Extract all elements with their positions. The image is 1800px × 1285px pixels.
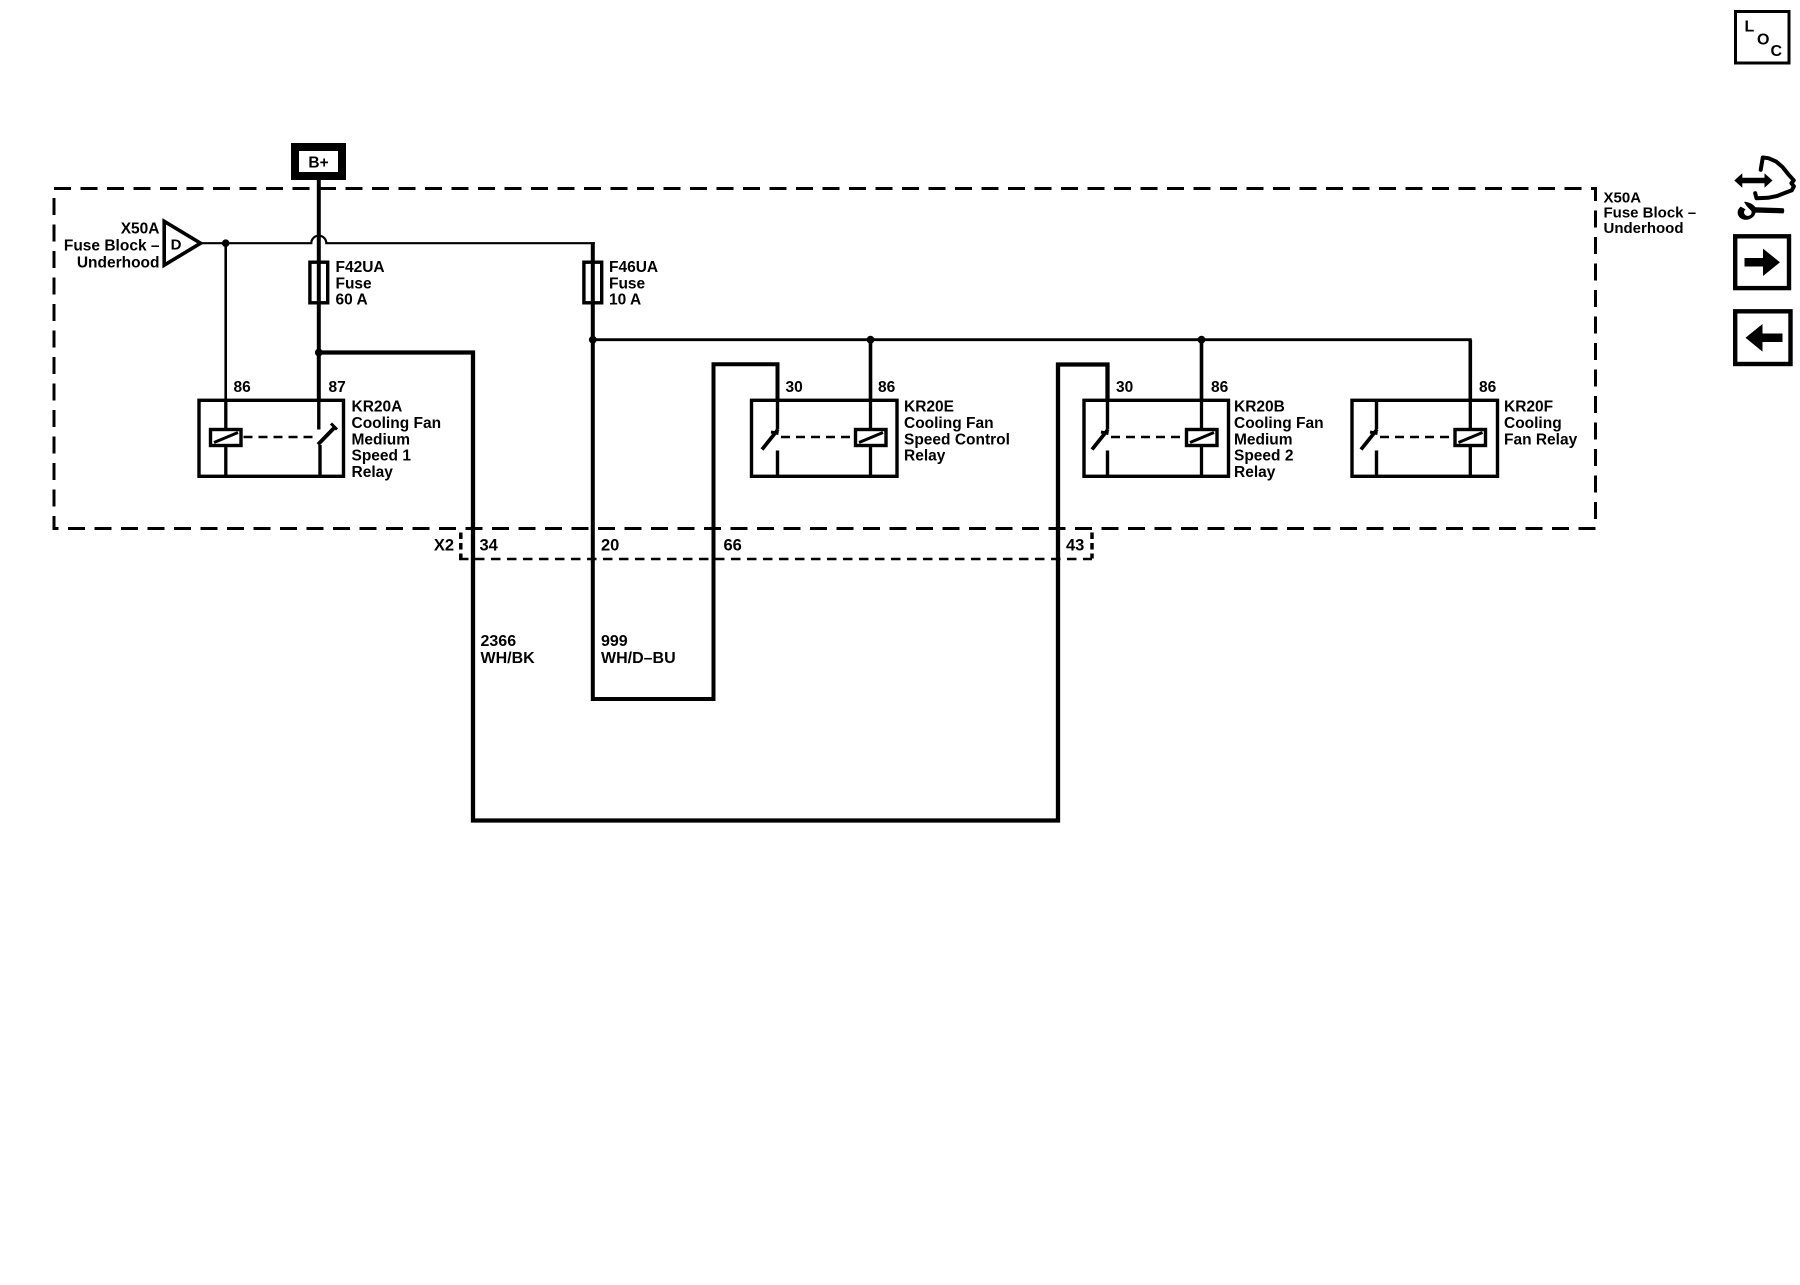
connector X2 right tick [1090, 533, 1094, 559]
svg-text:L: L [1745, 19, 1755, 36]
icon back arrow box [1735, 311, 1790, 364]
svg-text:60 A: 60 A [336, 292, 368, 309]
relay KR20F switch blade [1361, 430, 1377, 450]
relay KR20E coil [856, 430, 887, 446]
relay KR20E switch blade [762, 430, 778, 450]
relay KR20E box [752, 400, 898, 476]
svg-text:KR20B: KR20B [1234, 399, 1285, 416]
relay KR20B switch blade [1092, 430, 1108, 450]
relay KR20A box [199, 400, 344, 476]
svg-text:F46UA: F46UA [609, 259, 658, 276]
relay KR20B dashed actuator link [1111, 436, 1186, 439]
svg-text:34: 34 [480, 537, 499, 555]
relay KR20A coil pin 86 wire [224, 399, 227, 478]
node: junction dot on D wire [222, 239, 230, 247]
fuse F46UA symbol [584, 262, 602, 303]
svg-text:F42UA: F42UA [336, 259, 385, 276]
svg-text:Cooling Fan: Cooling Fan [1234, 415, 1324, 432]
svg-text:20: 20 [601, 537, 619, 555]
connector X2 left tick [459, 533, 463, 559]
wire: 86 bus from F46UA to KR20F [593, 340, 1471, 399]
svg-text:43: 43 [1066, 537, 1084, 555]
relay KR20A coil [211, 430, 242, 446]
relay KR20E switch pin 30 fixed contact [776, 399, 779, 430]
svg-text:Relay: Relay [904, 448, 946, 465]
svg-text:Speed Control: Speed Control [904, 431, 1010, 448]
svg-text:87: 87 [329, 379, 346, 396]
relay KR20A switch pin 87 fixed contact [317, 399, 320, 430]
relay KR20E switch lower stub [776, 451, 779, 478]
wire: drop to KR20E pin 86 [869, 340, 873, 399]
relay KR20B coil pin 86 wire [1200, 399, 1203, 478]
icon forward arrow box [1735, 236, 1789, 288]
svg-text:Medium: Medium [352, 431, 411, 448]
node: junction dot below F42UA [315, 349, 323, 357]
relay KR20A switch blade [318, 427, 336, 445]
svg-text:2366: 2366 [481, 633, 517, 650]
relay KR20E dashed actuator link [781, 436, 855, 439]
fuse block X50A dashed boundary [54, 189, 1596, 529]
svg-text:Cooling Fan: Cooling Fan [352, 415, 442, 432]
wire: F46UA vertical drop to bus junction [591, 242, 595, 340]
wire: circuit 999 WH/D-BU from F46UA through X2 pin 20 around to X2 pin 66 and KR20E pin 30 [593, 340, 778, 699]
relay KR20F box [1352, 400, 1498, 476]
wire: drop to KR20B pin 86 [1200, 340, 1204, 399]
svg-text:O: O [1757, 32, 1769, 49]
svg-text:30: 30 [1116, 379, 1133, 396]
relay KR20A switch lower stub [318, 445, 321, 478]
svg-text:C: C [1771, 43, 1783, 60]
svg-text:86: 86 [234, 379, 252, 396]
svg-text:Fuse: Fuse [609, 275, 646, 292]
svg-text:Underhood: Underhood [1604, 220, 1684, 237]
svg-text:Medium: Medium [1234, 431, 1293, 448]
svg-text:10 A: 10 A [609, 292, 641, 309]
connector X2 lower dashed edge [459, 558, 1092, 561]
icon LOC box [1736, 12, 1790, 64]
wire: horizontal from connector D to F46UA with hop over B+ wire [201, 236, 595, 244]
node: junction dot at KR20E 86 tap [867, 336, 875, 344]
relay KR20B coil [1187, 430, 1218, 446]
wire: circuit 2366 WH/BK from F42UA output through X2 pin 34 around to X2 pin 43 and KR20B pin 30 [319, 353, 1108, 821]
svg-text:30: 30 [786, 379, 803, 396]
svg-text:Relay: Relay [1234, 464, 1276, 481]
node: junction dot at F46UA bus tap [589, 336, 597, 344]
relay KR20A dashed actuator link [244, 436, 317, 439]
svg-text:86: 86 [1211, 379, 1229, 396]
svg-text:D: D [171, 237, 182, 254]
svg-text:Cooling: Cooling [1504, 415, 1562, 432]
svg-text:X2: X2 [434, 537, 454, 555]
wire: drop from D-wire junction to relay KR20A pin 86 [224, 243, 227, 402]
svg-text:WH/D–BU: WH/D–BU [601, 650, 676, 667]
svg-text:KR20E: KR20E [904, 399, 954, 416]
svg-text:Speed 1: Speed 1 [352, 448, 412, 465]
relay KR20F switch lower stub [1375, 451, 1378, 478]
svg-text:Speed 2: Speed 2 [1234, 448, 1293, 465]
connector D triangle [164, 221, 200, 265]
svg-text:Fuse: Fuse [336, 275, 373, 292]
relay KR20F dashed actuator link [1380, 436, 1454, 439]
svg-text:Cooling Fan: Cooling Fan [904, 415, 994, 432]
svg-text:B+: B+ [308, 155, 328, 172]
svg-text:999: 999 [601, 633, 628, 650]
wire through fuse F46UA [591, 262, 595, 303]
svg-text:66: 66 [724, 537, 742, 555]
svg-text:KR20F: KR20F [1504, 399, 1553, 416]
wire through fuse F42UA [317, 262, 321, 303]
relay KR20B switch pin 30 fixed contact [1106, 399, 1109, 430]
relay KR20F switch fixed contact from box top [1375, 399, 1378, 430]
svg-text:Relay: Relay [352, 464, 394, 481]
relay KR20E coil pin 86 wire [869, 399, 872, 478]
relay KR20B box [1084, 400, 1229, 476]
svg-text:86: 86 [1479, 379, 1497, 396]
svg-text:KR20A: KR20A [352, 399, 403, 416]
node: junction dot at KR20B 86 tap [1198, 336, 1206, 344]
svg-text:Underhood: Underhood [77, 254, 160, 271]
svg-text:86: 86 [878, 379, 896, 396]
svg-text:Fan Relay: Fan Relay [1504, 431, 1578, 448]
relay KR20F coil pin 86 wire [1469, 399, 1472, 478]
svg-text:X50A: X50A [121, 221, 160, 238]
icon vehicle outline with double arrow and wrench [1734, 158, 1794, 220]
svg-text:WH/BK: WH/BK [481, 650, 536, 667]
svg-text:Fuse Block –: Fuse Block – [64, 237, 160, 254]
wire: B+ feed down through F42UA to relay KR20A pin 87 [317, 180, 321, 399]
wire: drop to KR20F pin 86 [1469, 340, 1473, 399]
fuse F42UA symbol [310, 262, 328, 303]
relay KR20F coil [1455, 430, 1486, 446]
power symbol B+ box [295, 147, 342, 176]
relay KR20B switch lower stub [1106, 451, 1109, 478]
